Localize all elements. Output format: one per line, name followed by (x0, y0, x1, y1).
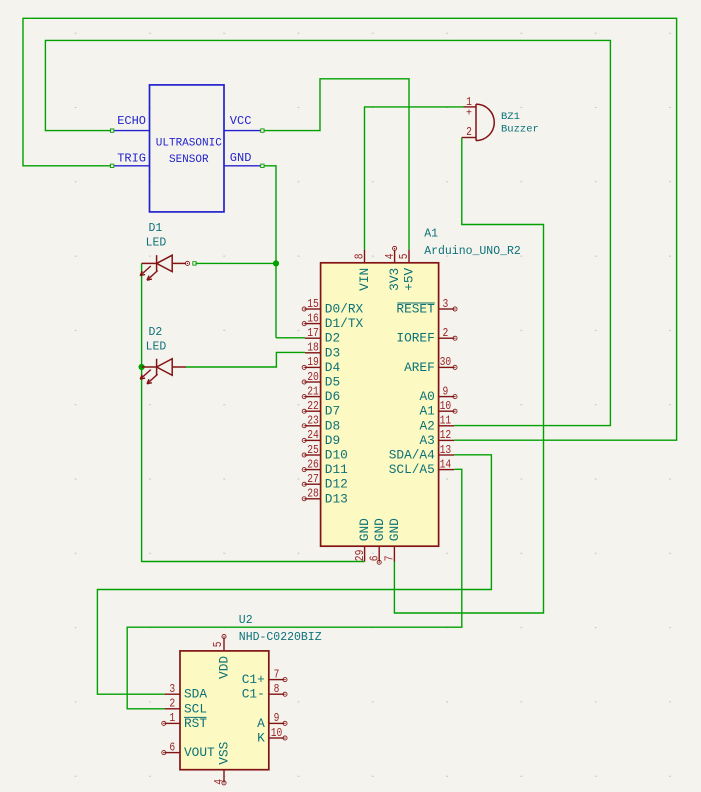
D1 anode dangling pin circle (185, 261, 189, 265)
svg-text:D0/RX: D0/RX (325, 302, 364, 317)
svg-text:D6: D6 (325, 389, 340, 404)
Arduino pin 3 RESET (396, 297, 457, 317)
Arduino pin 16 D1/TX (302, 311, 363, 331)
svg-text:21: 21 (307, 384, 319, 398)
svg-text:8: 8 (353, 253, 367, 259)
svg-text:SDA: SDA (184, 687, 207, 702)
svg-text:5: 5 (397, 253, 411, 259)
op-amp — Arduino A1 Arduino_UNO_R2 body (321, 263, 439, 546)
svg-text:+5V: +5V (402, 267, 417, 290)
svg-text:9: 9 (443, 384, 449, 398)
svg-text:+: + (466, 109, 472, 120)
svg-text:ULTRASONIC: ULTRASONIC (156, 138, 222, 150)
svg-text:D1/TX: D1/TX (325, 316, 364, 331)
wire net sensor GND / D1 anode / Arduino D2 pin (264, 166, 276, 338)
svg-text:10: 10 (440, 399, 452, 413)
svg-text:VCC: VCC (230, 114, 252, 128)
ultrasonic sensor module body (150, 85, 225, 212)
Arduino pin 20 D5 (302, 370, 340, 390)
svg-text:29: 29 (353, 550, 367, 562)
wire net ECHO to A2: left/top/right route (45, 40, 610, 425)
svg-text:27: 27 (307, 472, 319, 486)
Arduino pin 2 IOREF (396, 326, 457, 346)
svg-text:2: 2 (443, 326, 449, 340)
svg-text:2: 2 (466, 125, 472, 139)
wire net sensor VCC to Arduino +5V (264, 79, 409, 250)
buzzer BZ1 body (476, 104, 494, 141)
svg-text:15: 15 (307, 297, 319, 311)
U2 pin 8 C1- (242, 682, 287, 702)
svg-text:1: 1 (466, 95, 472, 109)
svg-text:D9: D9 (325, 433, 340, 448)
svg-text:D2: D2 (325, 331, 340, 346)
svg-text:6: 6 (169, 740, 175, 754)
Arduino pin 8 VIN (353, 250, 372, 291)
wire net buzzer pin1 to Arduino VIN (365, 107, 464, 250)
svg-text:D11: D11 (325, 462, 348, 477)
buzzer pin 2 (462, 137, 476, 139)
svg-text:D2: D2 (149, 326, 163, 339)
svg-text:3: 3 (443, 297, 449, 311)
svg-text:3V3: 3V3 (387, 268, 402, 291)
svg-text:VDD: VDD (217, 656, 232, 679)
svg-text:D1: D1 (149, 222, 163, 235)
svg-text:SCL/A5: SCL/A5 (389, 462, 435, 477)
U2 pin 7 C1+ (242, 667, 287, 687)
svg-text:30: 30 (440, 355, 452, 369)
Arduino pin 18 D3 (305, 341, 340, 361)
junction at sensor GND / D1 anode (273, 260, 279, 266)
svg-text:VIN: VIN (357, 268, 372, 291)
wire net LED cathodes to Arduino GND pin 29 (142, 263, 365, 561)
svg-text:GND: GND (372, 518, 387, 541)
U2 pin 2 SCL (165, 697, 207, 717)
sensor pin VCC (224, 130, 261, 132)
svg-text:LED: LED (146, 237, 167, 250)
Arduino pin 10 A1 (419, 399, 457, 419)
svg-text:IOREF: IOREF (396, 331, 434, 346)
svg-text:D3: D3 (325, 345, 340, 360)
Arduino pin 17 D2 (305, 326, 340, 346)
svg-text:BZ1: BZ1 (501, 111, 520, 123)
svg-text:VSS: VSS (217, 741, 232, 764)
wire net Arduino SDA/A4 to U2 SDA (97, 455, 491, 694)
Arduino pin 9 A0 (419, 384, 457, 404)
svg-text:17: 17 (307, 326, 319, 340)
U2 pin 3 SDA (165, 682, 208, 702)
svg-text:22: 22 (307, 399, 319, 413)
Arduino pin 13 SDA/A4 (389, 443, 454, 463)
svg-text:ECHO: ECHO (117, 114, 146, 128)
svg-text:U2: U2 (239, 614, 253, 627)
svg-text:RESET: RESET (396, 302, 435, 317)
svg-text:SCL: SCL (184, 701, 207, 716)
Arduino pin 15 D0/RX (302, 297, 363, 317)
svg-text:NHD-C0220BIZ: NHD-C0220BIZ (239, 631, 322, 644)
svg-text:A0: A0 (419, 389, 434, 404)
svg-text:C1+: C1+ (242, 672, 265, 687)
svg-text:13: 13 (440, 443, 452, 457)
svg-text:A: A (257, 716, 265, 731)
svg-text:A3: A3 (419, 433, 434, 448)
svg-text:9: 9 (274, 711, 280, 725)
svg-text:GND: GND (230, 151, 252, 165)
wire net TRIG to A3: left/top/right route (23, 18, 677, 440)
svg-text:Arduino_UNO_R2: Arduino_UNO_R2 (424, 245, 521, 258)
D1 anode wire-end square (193, 262, 196, 265)
svg-text:18: 18 (307, 341, 319, 355)
junction at D2 cathode (139, 364, 145, 370)
svg-text:10: 10 (271, 726, 283, 740)
svg-text:8: 8 (274, 682, 280, 696)
Arduino pin 12 A3 (419, 428, 454, 448)
wire D1 anode to junction (196, 262, 277, 264)
Arduino pin 29 GND (353, 518, 372, 562)
svg-text:AREF: AREF (404, 360, 435, 375)
U2 pin 9 A (257, 711, 287, 731)
svg-text:3: 3 (169, 682, 175, 696)
svg-text:24: 24 (307, 428, 319, 442)
svg-text:20: 20 (307, 370, 319, 384)
Arduino pin 27 D12 (302, 472, 348, 492)
Arduino pin 30 AREF (404, 355, 457, 375)
Arduino pin 28 D13 (302, 487, 348, 507)
svg-text:7: 7 (383, 555, 397, 561)
svg-text:1: 1 (169, 711, 175, 725)
svg-text:SENSOR: SENSOR (169, 154, 209, 166)
Arduino pin 19 D4 (302, 355, 340, 375)
U2 pin 5 VDD (211, 634, 232, 678)
Arduino pin 6 GND (367, 518, 386, 565)
LED D2 (140, 359, 186, 384)
Arduino pin 21 D6 (302, 384, 340, 404)
LED D1 (140, 255, 186, 280)
svg-text:C1-: C1- (242, 687, 265, 702)
svg-text:K: K (257, 731, 265, 746)
svg-text:23: 23 (307, 414, 319, 428)
svg-text:4: 4 (383, 253, 397, 259)
svg-text:A1: A1 (419, 404, 435, 419)
svg-text:D10: D10 (325, 448, 348, 463)
U2 pin 10 K (257, 726, 287, 746)
Arduino pin 23 D8 (302, 414, 340, 434)
U2 pin 6 VOUT (162, 740, 215, 760)
svg-text:16: 16 (307, 311, 319, 325)
svg-text:5: 5 (211, 642, 225, 648)
U2 pin 4 VSS (212, 741, 231, 785)
Arduino pin 4 3V3 (383, 246, 402, 290)
svg-text:12: 12 (440, 428, 452, 442)
svg-text:4: 4 (212, 779, 226, 785)
svg-text:TRIG: TRIG (117, 152, 146, 166)
wire net buzzer pin2 to Arduino GND pin 7 (394, 138, 543, 614)
svg-text:A2: A2 (419, 418, 434, 433)
svg-text:19: 19 (307, 355, 319, 369)
svg-text:D5: D5 (325, 375, 340, 390)
Arduino pin 14 SCL/A5 (389, 457, 454, 477)
U2 pin 1 RST (162, 711, 208, 731)
svg-text:14: 14 (440, 457, 452, 471)
Arduino pin 11 A2 (419, 414, 454, 434)
wire net Arduino SCL/A5 to U2 SCL (127, 469, 462, 709)
Arduino pin 7 GND (383, 518, 402, 562)
svg-text:RST: RST (184, 716, 207, 731)
wire D2 anode to Arduino D3 pin (186, 352, 305, 367)
buzzer pin 1 (463, 106, 476, 108)
svg-text:D8: D8 (325, 418, 340, 433)
svg-text:7: 7 (274, 667, 280, 681)
svg-text:VOUT: VOUT (184, 745, 215, 760)
svg-text:28: 28 (307, 487, 319, 501)
sensor pin TRIG (114, 165, 150, 167)
svg-text:LED: LED (146, 341, 167, 354)
sensor pin GND (224, 165, 261, 167)
Arduino pin 25 D10 (302, 443, 348, 463)
sensor pin ECHO (114, 130, 150, 132)
Arduino pin 22 D7 (302, 399, 340, 419)
svg-text:D12: D12 (325, 477, 348, 492)
Arduino pin 26 D11 (302, 457, 348, 477)
svg-text:SDA/A4: SDA/A4 (389, 448, 435, 463)
svg-text:GND: GND (387, 518, 402, 541)
svg-text:D4: D4 (325, 360, 341, 375)
svg-text:2: 2 (169, 697, 175, 711)
svg-text:11: 11 (440, 414, 452, 428)
svg-text:D13: D13 (325, 491, 348, 506)
svg-text:26: 26 (307, 457, 319, 471)
U2 NHD-C0220BIZ body (180, 651, 269, 770)
svg-text:D7: D7 (325, 404, 340, 419)
svg-text:25: 25 (307, 443, 319, 457)
svg-text:GND: GND (357, 518, 372, 541)
svg-text:Buzzer: Buzzer (501, 124, 539, 136)
Arduino pin 24 D9 (302, 428, 340, 448)
Arduino pin 5 +5V (397, 250, 416, 291)
svg-text:A1: A1 (424, 228, 438, 241)
